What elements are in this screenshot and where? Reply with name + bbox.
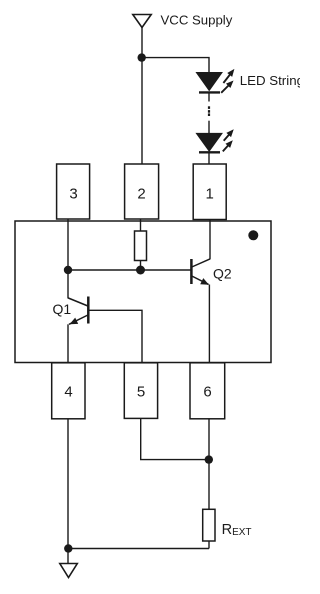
wire dots to LED D2 <box>208 121 210 134</box>
node rail-resistor <box>136 266 145 275</box>
node ground junction <box>64 544 72 552</box>
LED D1 <box>196 73 222 93</box>
wire LED D1 to dots <box>208 92 210 101</box>
svg-text:1: 1 <box>206 186 214 203</box>
wire pin 4 to ground node <box>67 419 69 549</box>
LED D1 emission arrows <box>221 70 234 93</box>
svg-text:Q1: Q1 <box>53 301 72 317</box>
node pin5/pin6 junction <box>205 455 213 463</box>
wire pin 3 to internal node <box>67 219 69 270</box>
internal rail wire <box>68 269 191 271</box>
transistor Q1 <box>68 297 88 325</box>
wire Q1 base to pin 5 <box>90 310 143 362</box>
wire REXT to bottom rail <box>208 541 210 549</box>
LED D2 emission arrows <box>223 130 233 152</box>
wire Q1 emitter to pin 4 <box>67 324 69 362</box>
wire Q2 collector to pin 1 <box>209 220 211 260</box>
pin 5 box <box>124 363 157 419</box>
wire LED D2 to pin 1 <box>208 152 210 164</box>
IC body <box>15 221 271 363</box>
wire pin 2 to resistor <box>140 219 142 231</box>
svg-text:6: 6 <box>203 384 211 401</box>
wire VCC to pin 2 <box>141 28 143 165</box>
pin 4 box <box>52 363 85 419</box>
resistor REXT <box>203 509 215 541</box>
svg-text:3: 3 <box>69 186 77 203</box>
wire rail to Q1 collector <box>67 270 69 299</box>
node rail-left <box>64 266 72 274</box>
wire Q2 emitter to pin 6 <box>208 285 210 363</box>
resistor internal <box>135 231 147 261</box>
transistor Q2 <box>191 259 210 285</box>
wire node to ground <box>67 549 69 564</box>
svg-text:VCC Supply: VCC Supply <box>161 12 233 27</box>
svg-text:2: 2 <box>137 186 145 203</box>
pin 2 box <box>125 164 159 219</box>
wire VCC junction to LED string <box>142 58 209 73</box>
svg-text:LED String: LED String <box>240 73 300 88</box>
pin 1 box <box>193 164 226 220</box>
IC pin1 marker dot <box>248 230 258 240</box>
wire pin 6 down <box>208 419 210 510</box>
bottom rail wire <box>68 548 209 550</box>
node VCC junction <box>138 53 146 61</box>
wire pin 5 to Rext node <box>141 418 209 459</box>
svg-text:5: 5 <box>137 384 145 401</box>
svg-text:4: 4 <box>64 384 72 401</box>
ground <box>60 564 78 578</box>
svg-text:Q2: Q2 <box>213 265 232 281</box>
pin 3 box <box>57 164 90 219</box>
dotted continuation of LED string <box>208 106 210 116</box>
VCC supply symbol <box>133 15 151 28</box>
pin 6 box <box>190 363 225 419</box>
LED D2 <box>196 133 222 152</box>
wire resistor to internal rail <box>140 261 142 271</box>
